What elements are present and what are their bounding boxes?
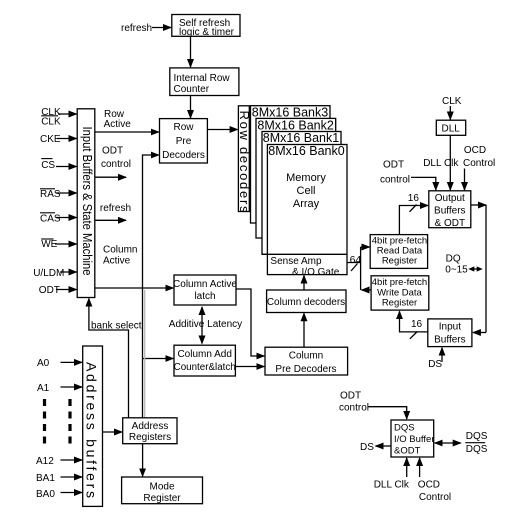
svg-text:BA1: BA1 bbox=[36, 473, 55, 484]
wire bank select bbox=[89, 299, 129, 419]
svg-text:Buffers: Buffers bbox=[434, 206, 466, 217]
svg-text:DLL Clk: DLL Clk bbox=[374, 480, 410, 491]
svg-text:Address: Address bbox=[132, 421, 169, 432]
svg-text:Register: Register bbox=[143, 493, 181, 504]
svg-text:logic & timer: logic & timer bbox=[179, 27, 235, 38]
box column decoders bbox=[267, 290, 346, 313]
wire A12 input bbox=[61, 459, 83, 461]
svg-text:CKE: CKE bbox=[40, 134, 61, 145]
wire refresh stub bbox=[95, 219, 126, 221]
wire CKE input bbox=[57, 138, 77, 140]
box column add counter latch bbox=[174, 345, 235, 376]
wire ODT control stub bbox=[95, 176, 126, 178]
wire CS input bbox=[56, 166, 77, 168]
wire CLK input bbox=[58, 113, 77, 115]
svg-text:Column: Column bbox=[289, 351, 323, 362]
wire column add counter to column pre decoders bbox=[235, 366, 264, 368]
svg-text:ODT: ODT bbox=[102, 146, 123, 157]
wire DQS double arrow bbox=[435, 442, 461, 444]
svg-text:Row: Row bbox=[173, 122, 194, 133]
svg-text:I/O Buffer: I/O Buffer bbox=[394, 434, 434, 445]
wire OCD control to DQS buffer bbox=[419, 458, 421, 477]
wire column pre decoders to column decoders bbox=[303, 313, 305, 347]
slash 16 bottom bbox=[410, 332, 417, 339]
svg-text:Column decoders: Column decoders bbox=[267, 297, 345, 308]
wire ODT control to output buffers bbox=[411, 177, 436, 190]
slash 16 top bbox=[410, 205, 417, 212]
svg-text:Column: Column bbox=[103, 245, 137, 256]
wire address registers to mode register bbox=[142, 444, 144, 477]
sense amp divider bbox=[262, 253, 347, 255]
wire column active latch to column pre decoders bbox=[236, 289, 264, 356]
svg-text:Pre Decoders: Pre Decoders bbox=[275, 364, 336, 375]
svg-text:16: 16 bbox=[408, 193, 420, 204]
bank1 box bbox=[262, 132, 341, 255]
svg-text:OCD: OCD bbox=[464, 145, 486, 156]
box row pre decoders bbox=[160, 119, 208, 163]
wire ODT control to DQS buffer bbox=[368, 407, 407, 419]
wire DLL to output buffers bbox=[449, 135, 451, 190]
svg-text:8Mx16 Bank0: 8Mx16 Bank0 bbox=[268, 144, 344, 158]
svg-text:Control: Control bbox=[419, 492, 451, 503]
svg-text:Register: Register bbox=[382, 298, 417, 309]
svg-text:Column Add: Column Add bbox=[177, 349, 231, 360]
svg-text:DQS: DQS bbox=[466, 444, 488, 455]
svg-text:&ODT: &ODT bbox=[394, 446, 421, 457]
box column pre decoders bbox=[265, 347, 348, 375]
svg-text:latch: latch bbox=[194, 291, 215, 302]
svg-text:BA0: BA0 bbox=[36, 489, 55, 500]
svg-text:WE: WE bbox=[41, 239, 57, 250]
wire address vertical line to row pre decoders bbox=[143, 155, 159, 418]
wire self-refresh to internal row counter bbox=[190, 36, 192, 67]
svg-text:DQ: DQ bbox=[446, 254, 461, 265]
svg-text:Row decoders: Row decoders bbox=[237, 110, 252, 213]
box output buffers and ODT bbox=[429, 191, 471, 228]
svg-text:Input: Input bbox=[439, 322, 461, 333]
wire A0 input bbox=[61, 361, 83, 363]
wire internal row counter to row pre decoders bbox=[190, 96, 192, 119]
svg-text:DQS: DQS bbox=[466, 431, 488, 442]
svg-text:Cell: Cell bbox=[297, 185, 316, 197]
wire BA1 input bbox=[61, 476, 83, 478]
svg-text:OCD: OCD bbox=[418, 480, 440, 491]
slash 64 bbox=[351, 264, 358, 272]
svg-text:0~15: 0~15 bbox=[445, 265, 468, 276]
wire address buffers to address registers bbox=[103, 431, 123, 433]
svg-text:& ODT: & ODT bbox=[435, 218, 466, 229]
wire 64-bit bus sense amp to read register bbox=[347, 262, 361, 264]
box input buffers and state machine bbox=[77, 109, 95, 298]
box self refresh logic and timer bbox=[172, 15, 240, 37]
wire refresh to self-refresh box bbox=[152, 27, 171, 29]
dashed line left bbox=[43, 399, 46, 444]
wire U/LDM input bbox=[60, 271, 77, 273]
svg-text:DS: DS bbox=[360, 442, 374, 453]
svg-text:Registers: Registers bbox=[129, 432, 171, 443]
svg-text:RAS: RAS bbox=[40, 189, 61, 200]
wire ODT input bbox=[56, 289, 77, 291]
box read data register bbox=[370, 235, 427, 269]
svg-text:CAS: CAS bbox=[40, 214, 61, 225]
wire column decoders to sense amp bbox=[303, 276, 305, 291]
svg-text:Memory: Memory bbox=[286, 172, 326, 184]
wire DQ double arrow bbox=[471, 268, 480, 270]
wire column active to column active latch bbox=[95, 287, 173, 289]
box column active latch bbox=[174, 275, 236, 305]
svg-text:control: control bbox=[101, 159, 131, 170]
box address registers bbox=[123, 418, 177, 444]
wire input buffers to write register bbox=[400, 311, 428, 332]
wire write register to bus bbox=[362, 289, 372, 291]
svg-text:Input Buffers & State Machine: Input Buffers & State Machine bbox=[80, 127, 95, 276]
dashed line right bbox=[68, 399, 71, 444]
svg-text:8Mx16 Bank1: 8Mx16 Bank1 bbox=[263, 131, 339, 145]
wire output buffers to DQ line bbox=[471, 204, 486, 206]
box input buffers right bbox=[428, 319, 472, 347]
box DLL bbox=[436, 120, 465, 135]
box write data register bbox=[371, 276, 429, 310]
wire CAS input bbox=[56, 217, 77, 219]
box DQS IO buffer bbox=[391, 420, 434, 457]
bank3 box bbox=[251, 106, 331, 223]
wire DS to input buffers bbox=[441, 348, 443, 362]
svg-text:bank select: bank select bbox=[91, 321, 142, 332]
svg-text:Register: Register bbox=[382, 256, 417, 267]
svg-text:DLL: DLL bbox=[442, 124, 461, 135]
wire OCD control to output buffers bbox=[464, 169, 466, 191]
svg-text:Counter&latch: Counter&latch bbox=[174, 362, 236, 373]
svg-text:Active: Active bbox=[103, 256, 131, 267]
svg-text:control: control bbox=[339, 403, 369, 414]
box address buffers bbox=[83, 346, 103, 506]
svg-text:Internal Row: Internal Row bbox=[174, 73, 231, 84]
wire RAS input bbox=[56, 192, 77, 194]
svg-text:DS: DS bbox=[428, 359, 442, 370]
wire DLL Clk to DQS buffer bbox=[406, 458, 408, 477]
svg-text:Sense Amp: Sense Amp bbox=[270, 256, 322, 267]
svg-text:4bit pre-fetch: 4bit pre-fetch bbox=[372, 277, 427, 288]
svg-text:Buffers: Buffers bbox=[434, 335, 466, 346]
wire row active bbox=[95, 131, 159, 133]
wire DQS buffer to DS bbox=[376, 445, 392, 447]
svg-text:Additive Latency: Additive Latency bbox=[169, 319, 242, 330]
svg-text:& I/O Gate: & I/O Gate bbox=[292, 267, 340, 278]
svg-text:Array: Array bbox=[293, 198, 320, 210]
box internal row counter bbox=[170, 68, 239, 96]
svg-text:Active: Active bbox=[104, 119, 132, 130]
bank2 box bbox=[256, 118, 336, 238]
svg-text:DLL Clk: DLL Clk bbox=[423, 158, 459, 169]
svg-text:CLK: CLK bbox=[41, 117, 61, 128]
svg-text:CS: CS bbox=[41, 160, 55, 171]
svg-text:refresh: refresh bbox=[121, 23, 152, 34]
svg-text:16: 16 bbox=[411, 319, 423, 330]
bank0 box bbox=[267, 145, 347, 275]
wire A1 input bbox=[61, 386, 83, 388]
svg-text:A12: A12 bbox=[36, 456, 54, 467]
wire additive latency double arrow bbox=[201, 307, 203, 344]
svg-text:refresh: refresh bbox=[100, 203, 131, 214]
svg-text:64: 64 bbox=[350, 254, 362, 266]
svg-text:A0: A0 bbox=[37, 358, 50, 369]
svg-text:Control: Control bbox=[463, 158, 495, 169]
svg-text:ODT: ODT bbox=[383, 160, 404, 171]
wire branch to column add counter bbox=[143, 358, 174, 360]
svg-text:Decoders: Decoders bbox=[162, 150, 205, 161]
svg-text:ODT: ODT bbox=[39, 285, 60, 296]
svg-text:U/LDM: U/LDM bbox=[33, 268, 64, 279]
svg-text:Mode: Mode bbox=[149, 482, 174, 493]
svg-text:Pre: Pre bbox=[176, 136, 192, 147]
box row decoders bbox=[238, 106, 249, 212]
wire WE input bbox=[55, 243, 77, 245]
box mode register bbox=[122, 477, 203, 504]
svg-text:DQS: DQS bbox=[394, 423, 415, 434]
svg-text:control: control bbox=[380, 175, 410, 186]
gray line bbox=[144, 290, 146, 418]
svg-text:CLK: CLK bbox=[442, 96, 462, 107]
wire BA0 input bbox=[61, 492, 83, 494]
svg-text:Column Active: Column Active bbox=[173, 279, 237, 290]
wire CLK to DLL bbox=[449, 106, 451, 120]
wire read register to output buffers bbox=[399, 206, 428, 235]
wire row pre decoders to row decoders bbox=[207, 129, 237, 131]
svg-text:Counter: Counter bbox=[174, 84, 210, 95]
svg-text:ODT: ODT bbox=[340, 391, 361, 402]
wire DQ line to input buffers bbox=[473, 332, 486, 334]
svg-text:A1: A1 bbox=[37, 383, 50, 394]
svg-text:Output: Output bbox=[435, 193, 465, 204]
